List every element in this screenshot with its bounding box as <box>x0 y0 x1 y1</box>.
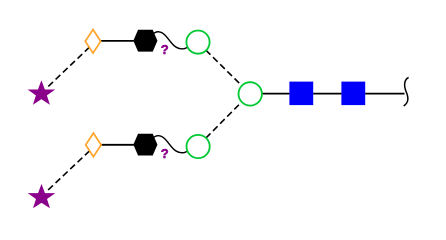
residue: blue square 1 <box>289 82 313 106</box>
wire: dashed bond circle1 to central circle <box>206 50 242 85</box>
wire: dashed bond star1 to diamond1 <box>48 48 89 87</box>
residue: green open circle central <box>239 82 262 105</box>
residue: blue square 2 <box>341 82 365 106</box>
residue: purple star 1 (top left) <box>29 82 54 104</box>
reducing-end squiggle <box>404 77 409 106</box>
wire: solid bond central circle to square1 <box>262 93 290 95</box>
wire: dashed bond circle2 to central circle <box>206 102 242 138</box>
wire: solid bond diamond2 to hexagon2 <box>102 144 135 146</box>
wire: dashed bond star2 to diamond2 <box>48 151 89 190</box>
svg-text:?: ? <box>161 42 169 57</box>
residue: black hexagon 2 <box>134 134 157 155</box>
residue: black hexagon 1 <box>134 30 157 51</box>
residue: orange open diamond 1 <box>85 30 100 54</box>
residue: green open circle 1 <box>186 30 209 53</box>
residue: purple star 2 (bottom left) <box>29 185 54 207</box>
wire: solid bond diamond1 to hexagon1 <box>101 40 134 42</box>
residue: orange open diamond 2 <box>86 133 101 157</box>
svg-text:?: ? <box>161 146 169 161</box>
wire: solid bond square2 to reducing end <box>365 93 404 95</box>
wire: solid bond square1 to square2 <box>313 93 341 95</box>
wire: wavy bond hexagon1 to circle1 <box>153 32 188 49</box>
wire: wavy bond hexagon2 to circle2 <box>153 136 188 153</box>
residue: green open circle 2 <box>187 135 210 158</box>
